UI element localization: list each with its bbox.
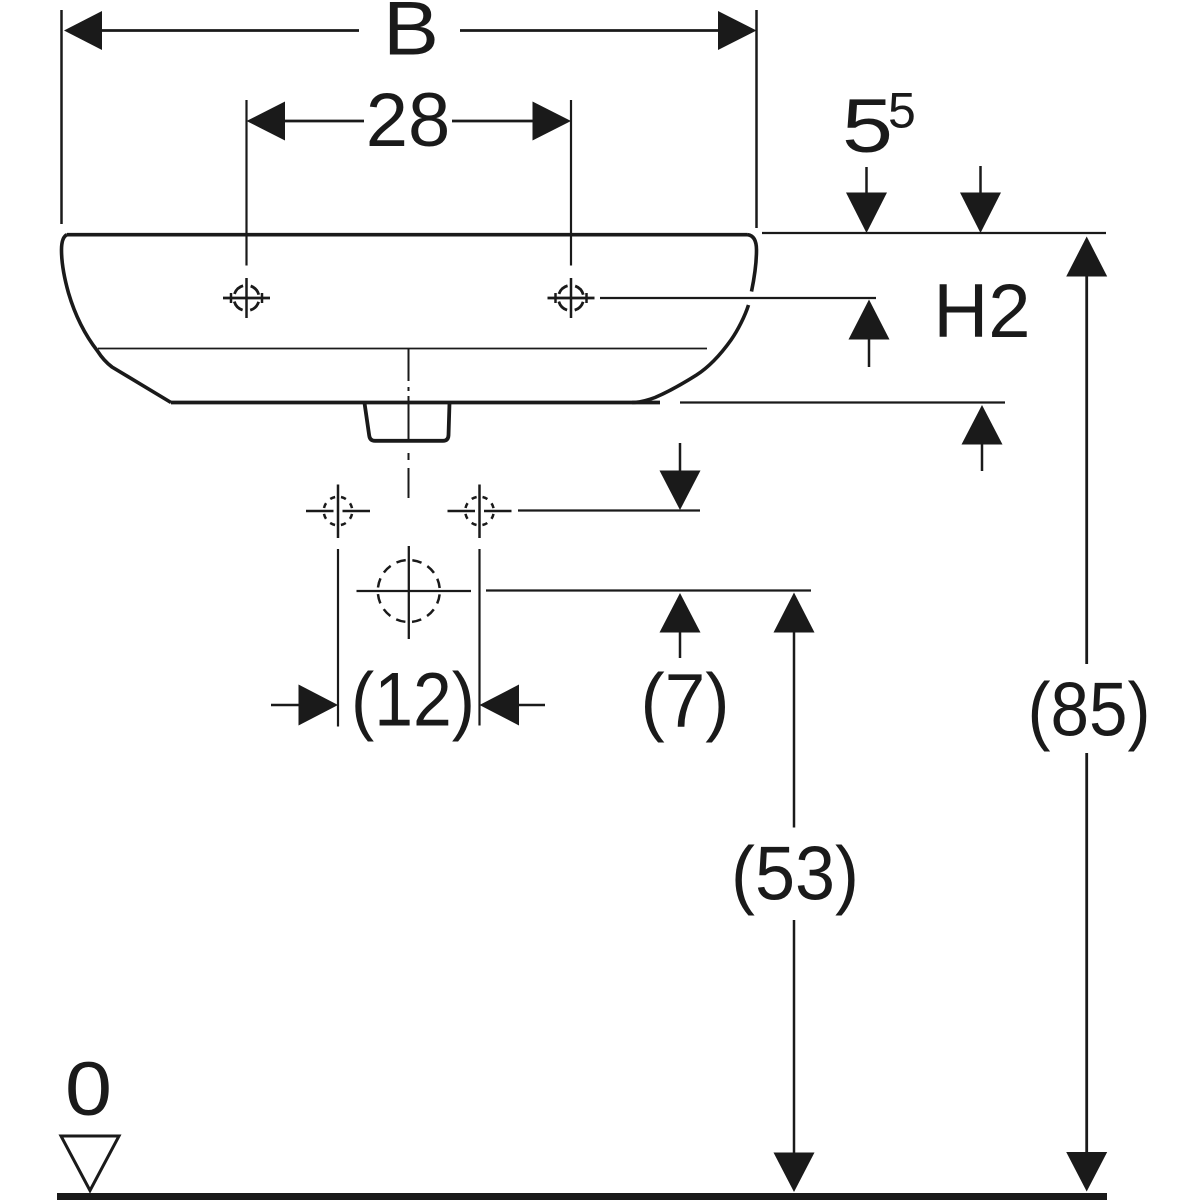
svg-text:0: 0 <box>65 1047 112 1132</box>
svg-text:(7): (7) <box>641 659 730 744</box>
svg-text:5: 5 <box>888 83 916 139</box>
svg-text:H2: H2 <box>933 269 1030 354</box>
svg-text:(53): (53) <box>731 832 859 917</box>
svg-text:(85): (85) <box>1028 668 1151 753</box>
svg-text:B: B <box>383 0 439 72</box>
svg-text:28: 28 <box>366 78 451 163</box>
svg-text:(12): (12) <box>351 658 475 743</box>
svg-text:5: 5 <box>842 84 893 169</box>
